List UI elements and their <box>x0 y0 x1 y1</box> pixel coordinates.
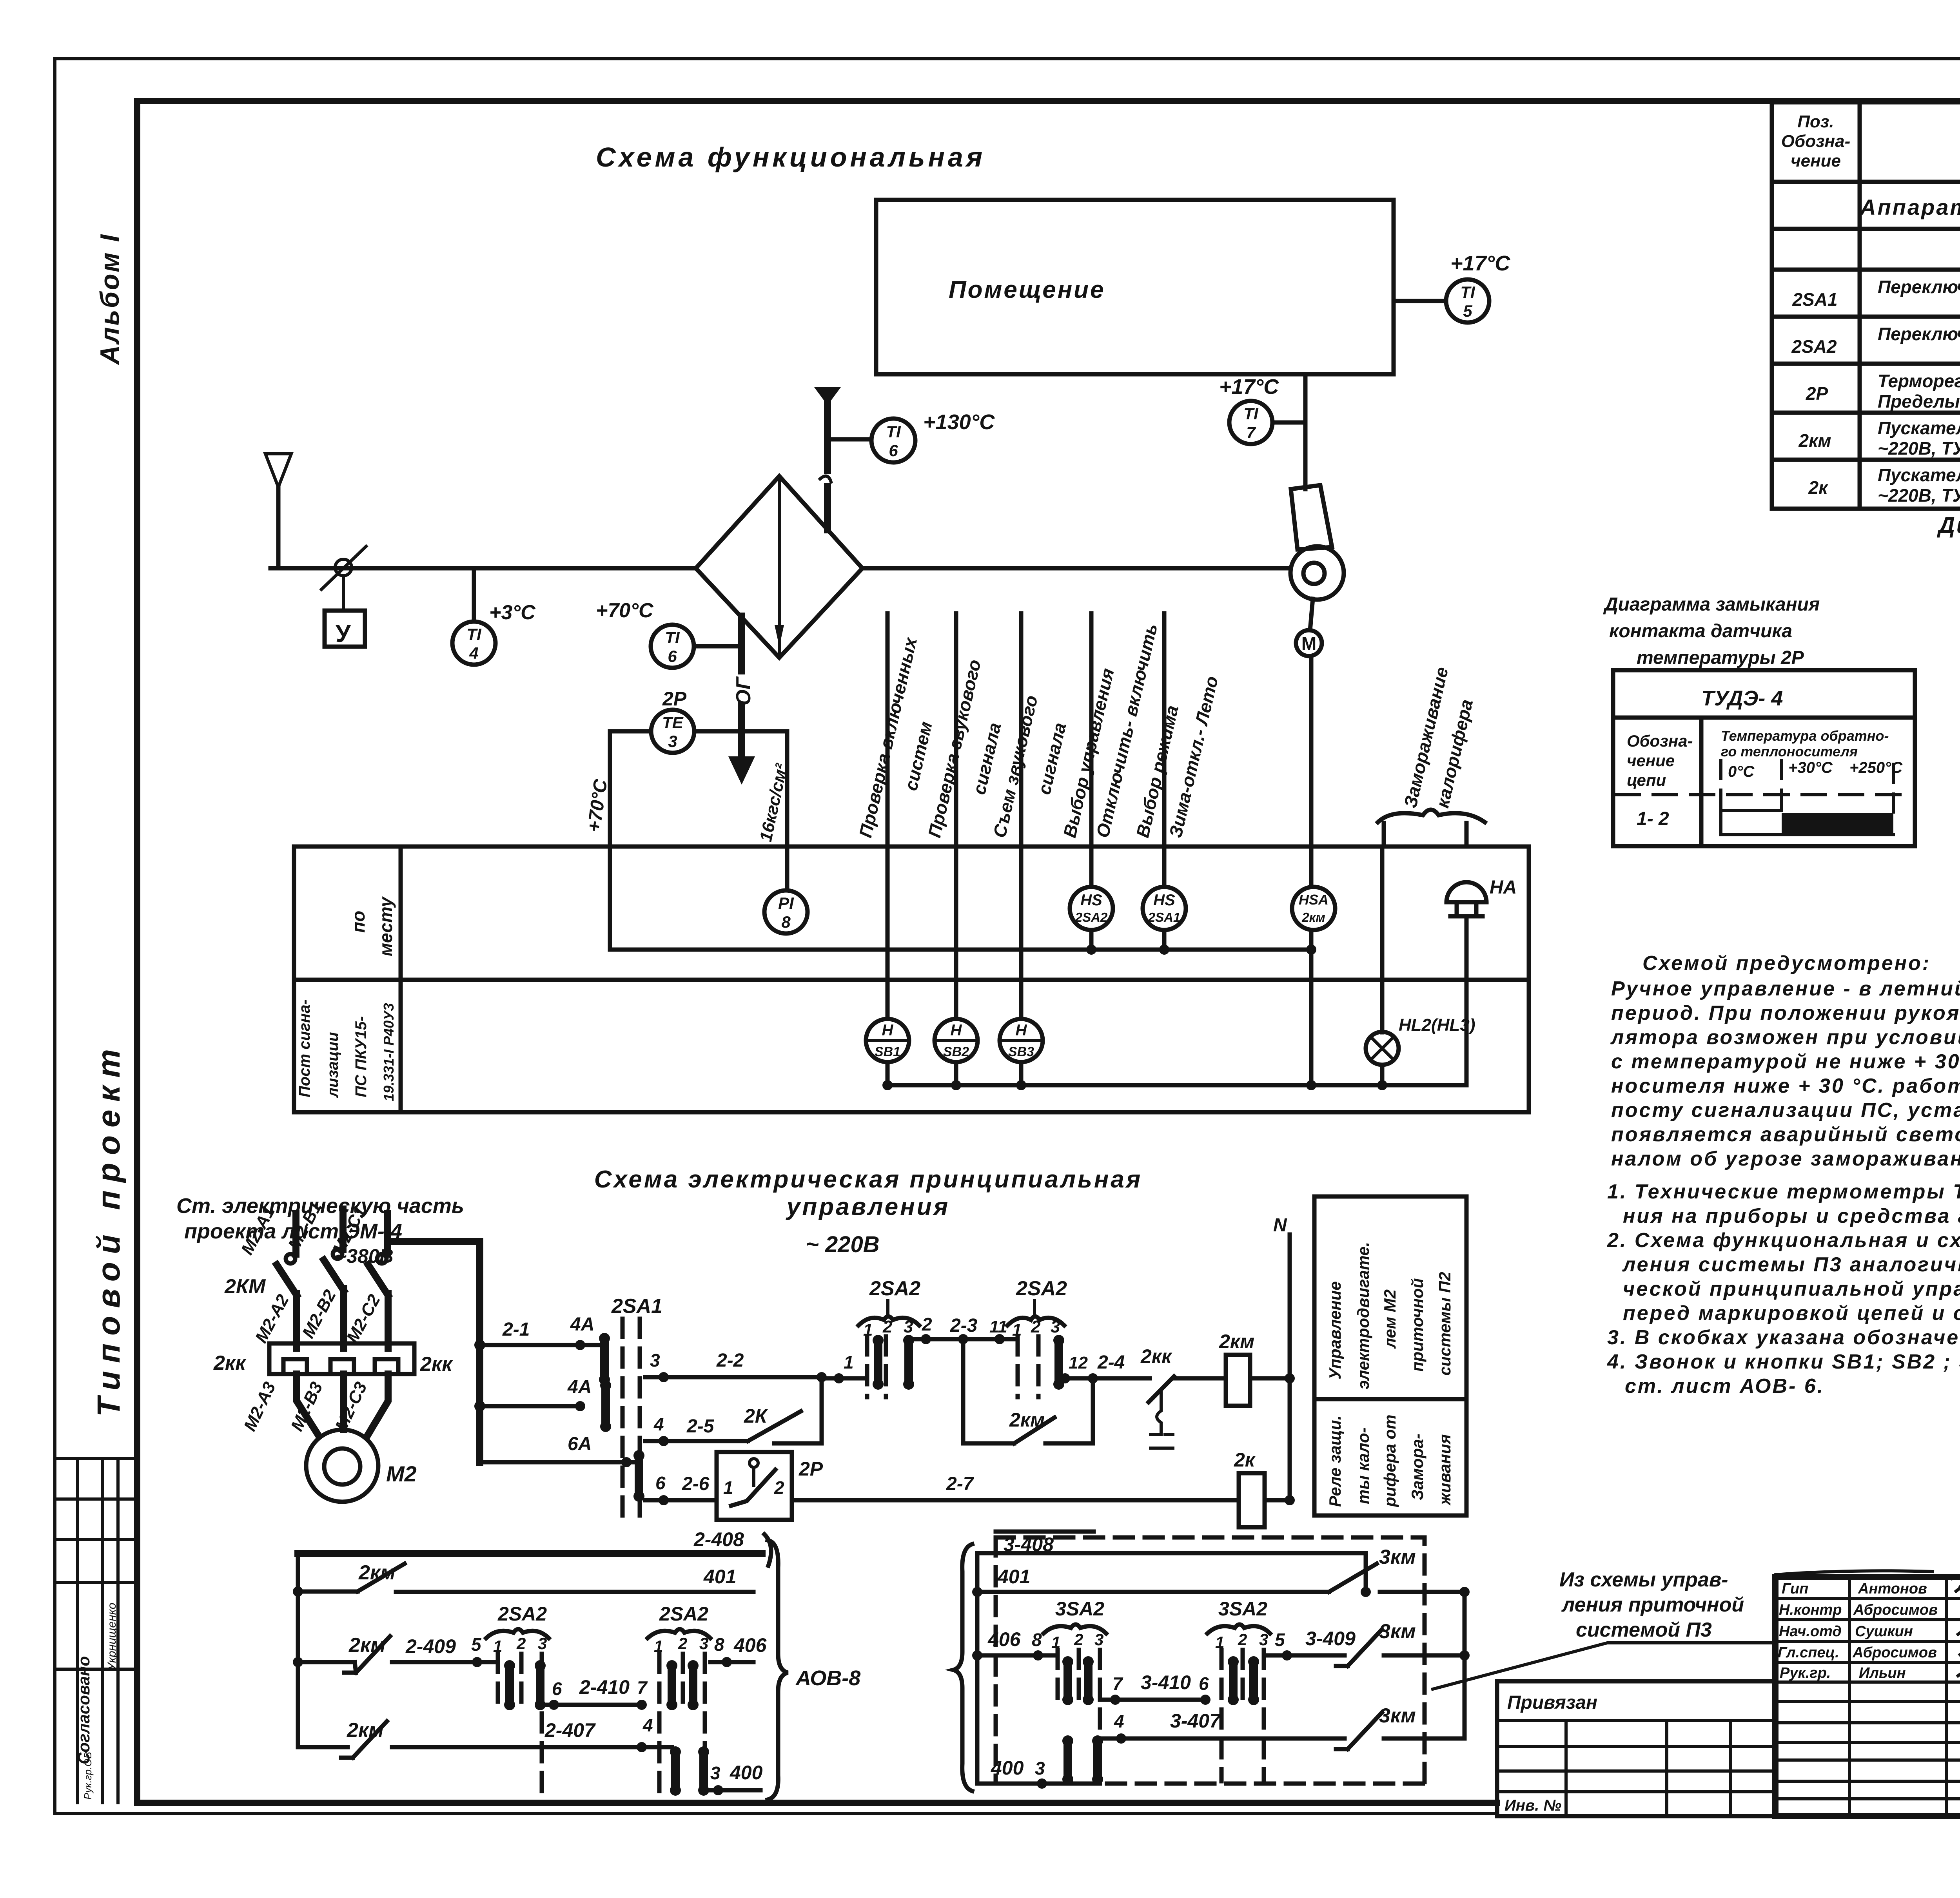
wire room to TI5 <box>1394 299 1446 303</box>
svg-text:Переключатель универсальный УП: Переключатель универсальный УП5313-А19 <box>1878 324 1960 344</box>
svg-text:чение: чение <box>1627 751 1675 770</box>
command line Проверка включенных систем <box>855 613 936 1019</box>
svg-text:3км: 3км <box>1379 1546 1416 1568</box>
wire 2-2 row <box>645 1350 827 1382</box>
svg-text:7: 7 <box>637 1677 648 1698</box>
ladder 2: brace АОВ-8 <box>768 1540 860 1800</box>
svg-text:2SА1: 2SА1 <box>611 1295 662 1318</box>
svg-text:Обозна-: Обозна- <box>1627 732 1693 750</box>
motor M2 <box>306 1430 417 1502</box>
instrument TI5 <box>1446 252 1510 323</box>
svg-text:Реле защи.: Реле защи. <box>1326 1416 1344 1507</box>
ladder 2: wire 400 <box>704 1762 763 1795</box>
horn HA <box>1446 877 1517 916</box>
panel band box <box>294 847 1529 1112</box>
svg-text:Переключатель универсальный УП: Переключатель универсальный УП5312-С86 <box>1878 277 1960 297</box>
svg-text:2: 2 <box>1074 1630 1083 1649</box>
svg-text:РI: РI <box>778 894 794 912</box>
svg-text:месту: месту <box>376 896 396 956</box>
pressure line to PI8 <box>785 731 789 890</box>
svg-text:носителя ниже + 30 °С. работа: носителя ниже + 30 °С. работающий вентил… <box>1611 1075 1960 1097</box>
left margin stamp table <box>55 1459 137 1803</box>
svg-text:М2: М2 <box>386 1461 417 1486</box>
svg-text:SВ2: SВ2 <box>943 1044 969 1059</box>
control feed tap wire <box>387 1242 485 1462</box>
command line Выбор управления <box>1059 613 1161 887</box>
svg-text:Диаграмма замыкания: Диаграмма замыкания <box>1603 594 1820 615</box>
svg-text:2: 2 <box>882 1317 893 1336</box>
parts table row 2SA2 <box>1791 323 1960 364</box>
svg-text:401: 401 <box>703 1566 736 1588</box>
svg-text:6: 6 <box>655 1473 666 1493</box>
wire 2-1 row <box>480 1314 604 1350</box>
svg-text:ТУДЭ- 4: ТУДЭ- 4 <box>1701 687 1783 710</box>
svg-text:+17°С: +17°С <box>1219 375 1279 399</box>
band row label по месту <box>348 896 396 956</box>
svg-text:SВ3: SВ3 <box>1008 1044 1034 1059</box>
svg-text:ПС ПКУ15-: ПС ПКУ15- <box>352 1016 370 1097</box>
svg-text:Схема функциональная: Схема функциональная <box>596 142 985 172</box>
svg-text:1: 1 <box>723 1477 733 1498</box>
svg-text:3: 3 <box>699 1634 708 1653</box>
svg-text:2-1: 2-1 <box>502 1319 530 1340</box>
notes text block <box>1607 952 1960 1398</box>
pipe from diamond to fan <box>862 566 1291 571</box>
signature squiggles <box>1776 1554 1960 1678</box>
command line Проверка звукового сигнала <box>924 613 1005 1019</box>
svg-text:2км: 2км <box>1009 1409 1045 1431</box>
svg-text:с температурой не ниже + 30°: с температурой не ниже + 30°С. При сниже… <box>1611 1050 1960 1073</box>
svg-text:4. Звонок и кнопки SВ1; SВ2: 4. Звонок и кнопки SВ1; SВ2 ; SВ3 являют… <box>1607 1351 1960 1373</box>
svg-text:2-5: 2-5 <box>686 1416 715 1437</box>
sensor TE3 (2Р) <box>651 688 694 753</box>
svg-text:НS: НS <box>1153 892 1175 909</box>
svg-text:цепи: цепи <box>1627 771 1666 789</box>
svg-text:лем М2: лем М2 <box>1381 1289 1399 1349</box>
svg-text:~220В, ТУ16-526.437-78: ~220В, ТУ16-526.437-78 <box>1878 438 1960 459</box>
ladder 2: left bus <box>293 1554 303 1747</box>
neutral wire N <box>1273 1215 1290 1500</box>
svg-text:6: 6 <box>1199 1673 1209 1694</box>
svg-text:Температура обратно-: Температура обратно- <box>1721 728 1889 744</box>
ladder 2: wire 406 <box>710 1634 767 1667</box>
svg-text:2кк: 2кк <box>1140 1345 1172 1367</box>
svg-text:НSА: НSА <box>1299 892 1328 908</box>
svg-text:2к: 2к <box>1234 1449 1256 1471</box>
switch HS 2SA2 <box>1070 887 1113 930</box>
svg-text:2: 2 <box>516 1634 526 1653</box>
parts table headers <box>1781 112 1960 170</box>
svg-text:3-410: 3-410 <box>1141 1671 1191 1693</box>
svg-text:2SА2: 2SА2 <box>1016 1277 1067 1300</box>
svg-text:4: 4 <box>653 1414 664 1434</box>
wire Пост row bottom <box>882 916 1466 1090</box>
svg-text:Замора-: Замора- <box>1408 1434 1426 1500</box>
phase wire B with 2КМ contact <box>285 1198 344 1348</box>
svg-text:2SА2: 2SА2 <box>869 1277 920 1300</box>
svg-text:406: 406 <box>987 1628 1021 1650</box>
ladder 3: switch 3SA2 group1 lower bars <box>1062 1735 1103 1785</box>
svg-text:контакта датчика: контакта датчика <box>1609 621 1792 642</box>
svg-text:2: 2 <box>1031 1317 1041 1336</box>
svg-text:Аппаратура по месту: Аппаратура по месту <box>1859 195 1960 219</box>
svg-text:2км: 2км <box>348 1634 386 1657</box>
svg-text:2км: 2км <box>347 1719 384 1742</box>
svg-text:Инв. №: Инв. № <box>1504 1797 1561 1814</box>
wire 2-3 row <box>909 1314 1018 1344</box>
svg-text:Из схемы управ-: Из схемы управ- <box>1559 1568 1728 1591</box>
svg-text:ОГ: ОГ <box>732 676 755 705</box>
svg-text:8: 8 <box>781 913 791 931</box>
svg-text:по: по <box>348 911 368 933</box>
svg-text:2-4: 2-4 <box>1097 1352 1125 1373</box>
svg-text:3: 3 <box>668 732 677 750</box>
instrument TI6 top <box>828 410 995 462</box>
svg-text:2Р: 2Р <box>1806 383 1828 404</box>
command line Выбор режима <box>1132 613 1222 887</box>
svg-text:перед маркировкой цепей и: перед маркировкой цепей и обозначений ап… <box>1623 1302 1960 1325</box>
svg-text:2-407: 2-407 <box>544 1719 596 1741</box>
svg-text:3SА2: 3SА2 <box>1218 1598 1267 1620</box>
svg-text:6А: 6А <box>568 1434 592 1454</box>
leader Из схемы управления <box>1433 1568 1772 1689</box>
svg-text:3км: 3км <box>1379 1704 1416 1727</box>
svg-text:2SА2: 2SА2 <box>1075 910 1108 925</box>
svg-text:2кк: 2кк <box>213 1352 247 1374</box>
svg-text:6: 6 <box>889 441 898 460</box>
ladder 3: left bus <box>972 1553 982 1784</box>
svg-text:+3°С: +3°С <box>489 601 536 624</box>
svg-text:3-409: 3-409 <box>1305 1628 1356 1650</box>
ladder 3: wire 401 with contact 3КМ <box>977 1546 1470 1597</box>
wire 4A row2 <box>480 1377 592 1411</box>
main row wire into 2SA2 <box>822 1352 867 1383</box>
phase wire A with 2КМ contact <box>238 1203 297 1348</box>
svg-text:Схема электрическая принципи: Схема электрическая принципиальная <box>594 1166 1143 1193</box>
svg-text:8: 8 <box>1032 1630 1042 1650</box>
svg-text:2: 2 <box>774 1477 784 1498</box>
svg-text:12: 12 <box>1069 1353 1088 1372</box>
svg-text:Управление: Управление <box>1326 1281 1344 1380</box>
wire по месту row <box>610 930 1316 955</box>
svg-text:Н.контр: Н.контр <box>1779 1602 1842 1618</box>
wire 2-5 row with contact 2К <box>645 1377 822 1446</box>
svg-text:+130°С: +130°С <box>923 410 995 434</box>
phase wire C with 2КМ contact <box>329 1203 388 1348</box>
svg-text:5: 5 <box>1275 1630 1285 1650</box>
svg-text:Ильин: Ильин <box>1859 1665 1906 1681</box>
lamp HL2(HL3) <box>1366 847 1475 1065</box>
svg-text:4А: 4А <box>570 1314 594 1335</box>
svg-text:2км: 2км <box>1798 430 1831 451</box>
svg-text:7: 7 <box>1112 1673 1123 1694</box>
svg-text:8: 8 <box>714 1634 724 1655</box>
svg-text:+30°С: +30°С <box>1788 759 1833 776</box>
push button H SB3 <box>1000 1019 1043 1062</box>
svg-text:2SА1: 2SА1 <box>1792 289 1837 310</box>
svg-text:НА: НА <box>1490 877 1517 898</box>
svg-text:АОВ-8: АОВ-8 <box>795 1666 860 1690</box>
svg-text:4: 4 <box>1114 1711 1124 1731</box>
svg-text:3SА2: 3SА2 <box>1055 1598 1104 1620</box>
svg-text:Диаграмма замыкания контакто: Диаграмма замыкания контактов <box>1936 513 1960 538</box>
svg-text:Пределы регулирования от 0 до: Пределы регулирования от 0 до +250°С <box>1878 391 1960 412</box>
wire 2-6 row <box>645 1473 717 1505</box>
svg-text:2км: 2км <box>1301 910 1325 925</box>
note Ст. электрическую часть <box>176 1194 464 1267</box>
svg-text:3: 3 <box>538 1634 547 1653</box>
svg-text:ления приточной: ления приточной <box>1561 1593 1744 1616</box>
svg-text:Пускатель магнитный ПМЛ-111002: Пускатель магнитный ПМЛ-111002А <box>1878 465 1960 485</box>
svg-text:2SА2: 2SА2 <box>1791 336 1837 357</box>
thermal overload 2КК <box>213 1343 453 1376</box>
svg-text:системой П3: системой П3 <box>1576 1619 1712 1641</box>
parts table row 2SA1 <box>1792 276 1960 317</box>
svg-text:1: 1 <box>844 1352 854 1372</box>
ladder 3: wire 3-410 <box>1100 1671 1210 1705</box>
svg-text:Помещение: Помещение <box>949 276 1105 303</box>
svg-text:3: 3 <box>1259 1630 1268 1649</box>
svg-text:Схемой предусмотрено:: Схемой предусмотрено: <box>1642 952 1931 975</box>
svg-text:5: 5 <box>471 1634 482 1655</box>
svg-text:3: 3 <box>1035 1758 1045 1778</box>
svg-text:ления системы П3 аналогичны: ления системы П3 аналогичны схеме функци… <box>1622 1253 1960 1276</box>
svg-text:3: 3 <box>1051 1317 1060 1336</box>
svg-text:ст. лист АОВ- 6.: ст. лист АОВ- 6. <box>1625 1375 1824 1398</box>
svg-text:ТI: ТI <box>665 628 680 647</box>
supply line Г with filled triangle <box>814 387 841 530</box>
title block frame <box>1775 1577 1960 1816</box>
svg-text:2: 2 <box>922 1314 932 1334</box>
ladder 3: wire 3-408 <box>977 1532 1366 1592</box>
svg-text:4: 4 <box>469 644 478 662</box>
switch 2SA2 group1 <box>858 1277 920 1397</box>
svg-text:ния на приборы и средства: ния на приборы и средства автоматизации. <box>1623 1205 1960 1227</box>
svg-text:2км: 2км <box>358 1561 396 1584</box>
svg-text:Пускатель магнитный: Пускатель магнитный <box>1878 418 1960 438</box>
heater diamond <box>696 476 862 658</box>
svg-text:400: 400 <box>730 1762 763 1784</box>
svg-text:4: 4 <box>642 1715 653 1735</box>
svg-text:7: 7 <box>1246 423 1256 442</box>
svg-text:лизации: лизации <box>324 1032 341 1098</box>
svg-text:рифера от: рифера от <box>1381 1414 1399 1507</box>
ladder 2: wire 2-407 with contact 2КМ NC <box>298 1715 672 1758</box>
parts table row 2км <box>1798 418 1960 461</box>
antenna symbol left <box>265 454 291 568</box>
wire M down to HSA <box>1309 656 1314 887</box>
svg-text:N: N <box>1273 1215 1287 1236</box>
svg-text:го теплоносителя: го теплоносителя <box>1721 743 1858 760</box>
switch 2SA1 bar row2 <box>600 1380 611 1432</box>
svg-text:Согласовано: Согласовано <box>74 1656 93 1764</box>
svg-text:Нач.отд: Нач.отд <box>1779 1623 1842 1640</box>
svg-text:Привязан: Привязан <box>1507 1692 1597 1713</box>
switch 2SA2 group2 <box>1007 1277 1067 1397</box>
svg-text:2КМ: 2КМ <box>224 1275 266 1298</box>
svg-text:лятора возможен при условии: лятора возможен при условии протока чере… <box>1610 1026 1960 1049</box>
svg-text:2-2: 2-2 <box>716 1350 744 1371</box>
svg-text:2SА2: 2SА2 <box>659 1603 708 1625</box>
switch 2SA1 bar row3 <box>633 1450 644 1502</box>
svg-text:~220В, ТУ16-526.437-78: ~220В, ТУ16-526.437-78 <box>1878 485 1960 506</box>
svg-text:2-3: 2-3 <box>950 1315 978 1336</box>
switch HS 2SA1 <box>1143 887 1186 930</box>
wire 2-4 row <box>1059 1352 1150 1383</box>
svg-text:ТI: ТI <box>886 422 901 441</box>
svg-text:2SА1: 2SА1 <box>1148 910 1181 925</box>
svg-text:приточной: приточной <box>1408 1278 1426 1372</box>
svg-text:3: 3 <box>710 1763 720 1783</box>
band row label Пост сигнализации <box>296 999 397 1101</box>
svg-text:Н: Н <box>882 1022 894 1039</box>
command line Съем звукового сигнала <box>989 613 1070 1019</box>
svg-text:4А: 4А <box>567 1377 592 1398</box>
wire 6A row <box>480 1434 639 1467</box>
svg-text:электродвигате.: электродвигате. <box>1354 1242 1372 1389</box>
svg-text:2-409: 2-409 <box>405 1635 456 1657</box>
svg-text:Ручное управление - в летний: Ручное управление - в летний период, пол… <box>1611 977 1960 1000</box>
wire 2-7 <box>792 1474 1239 1500</box>
svg-text:температуры 2Р: температуры 2Р <box>1637 647 1804 668</box>
svg-text:11: 11 <box>989 1317 1007 1336</box>
svg-text:2Р: 2Р <box>799 1458 823 1480</box>
svg-text:М: М <box>1301 633 1316 654</box>
svg-text:Н: Н <box>1016 1022 1027 1039</box>
svg-text:Гл.спец.: Гл.спец. <box>1778 1644 1839 1661</box>
svg-text:2: 2 <box>678 1634 687 1653</box>
svg-text:6: 6 <box>668 647 677 665</box>
svg-text:+17°С: +17°С <box>1450 252 1510 275</box>
ladder 2: wire 401 with contact 2КМ <box>298 1561 753 1592</box>
contactor coil 2КМ <box>1219 1331 1295 1406</box>
relay coil 2К <box>1234 1449 1295 1527</box>
svg-text:ТI: ТI <box>1460 283 1475 301</box>
ladder 3: wire 400 <box>977 1757 1100 1789</box>
instrument TI4 <box>452 568 536 665</box>
push button H SB2 <box>935 1019 978 1062</box>
svg-text:SВ1: SВ1 <box>875 1044 900 1059</box>
push button H SB1 <box>866 1019 909 1062</box>
ladder 2: wire 2-408 <box>298 1528 771 1566</box>
svg-text:2к: 2к <box>1808 477 1829 498</box>
instrument PI8 <box>764 890 808 934</box>
svg-text:2К: 2К <box>744 1405 768 1427</box>
parts list table grid <box>1772 102 1960 509</box>
ladder 2: switch 2SA2 group1 <box>486 1603 549 1797</box>
svg-text:400: 400 <box>991 1757 1024 1779</box>
svg-text:системы П2: системы П2 <box>1436 1272 1454 1376</box>
svg-text:Н: Н <box>951 1022 962 1039</box>
switch 2SA1 dashed columns <box>611 1295 662 1517</box>
svg-text:2. Схема функциональная и с: 2. Схема функциональная и схема электрич… <box>1607 1229 1960 1252</box>
ladder 3: switch 3SA2 group1 <box>1044 1598 1106 1781</box>
svg-text:406: 406 <box>733 1634 767 1656</box>
svg-text:ты кало-: ты кало- <box>1354 1427 1372 1504</box>
svg-text:чение: чение <box>1791 151 1841 170</box>
ladder 2: switch 2SA2 group2 upper bars <box>648 1603 710 1797</box>
duct wire room to fan <box>1303 374 1308 489</box>
svg-text:2-6: 2-6 <box>682 1474 710 1494</box>
svg-text:налом об угрозе замораживани: налом об угрозе замораживания калорифера… <box>1611 1148 1960 1170</box>
thermal contact 2КК NC <box>1140 1345 1226 1448</box>
svg-text:3. В скобках указана обозна: 3. В скобках указана обозначение для сис… <box>1607 1326 1960 1349</box>
svg-text:Альбом I: Альбом I <box>95 233 125 365</box>
electric schematic title <box>594 1166 1143 1220</box>
svg-text:Обозна-: Обозна- <box>1781 132 1851 151</box>
svg-text:1. Технические термометры ТI: 1. Технические термометры ТI заказываютс… <box>1607 1180 1960 1203</box>
svg-text:2-410: 2-410 <box>579 1676 630 1698</box>
hot water line ОГ with arrow <box>728 616 755 785</box>
instrument TI6 lower <box>596 599 742 668</box>
parts table row 2Р <box>1806 371 1960 412</box>
svg-text:Сушкин: Сушкин <box>1855 1623 1913 1640</box>
svg-text:2Р: 2Р <box>662 688 687 710</box>
signature rows text <box>1778 1581 1938 1681</box>
ladder 3: switch 3SA2 group2 <box>1207 1598 1270 1781</box>
svg-text:2-7: 2-7 <box>946 1474 975 1494</box>
ladder 2: wire 2-410 <box>542 1676 648 1710</box>
ladder 3: wire 406 row start <box>977 1628 1058 1661</box>
svg-text:управления: управления <box>786 1193 950 1220</box>
svg-text:3: 3 <box>650 1350 660 1370</box>
svg-text:появляется аварийный светово: появляется аварийный световой сигнал, со… <box>1611 1123 1960 1146</box>
svg-text:2SА2: 2SА2 <box>497 1603 547 1625</box>
svg-text:2кк: 2кк <box>420 1353 453 1376</box>
svg-text:Гип: Гип <box>1782 1581 1808 1597</box>
ladder 2: wire 2-409 with contact 2КМ NC <box>298 1634 498 1673</box>
svg-text:период. При положении рукоят: период. При положении рукоятки переключа… <box>1611 1002 1960 1024</box>
svg-text:ТI: ТI <box>1243 404 1259 423</box>
TUDE-4 diagram table <box>1613 670 1915 846</box>
svg-text:У: У <box>336 620 351 647</box>
svg-text:Рук.гр.ОВ: Рук.гр.ОВ <box>82 1752 94 1800</box>
svg-text:НS: НS <box>1080 892 1102 909</box>
caption Диаграмма замыкания контакта датчика 2Р <box>1603 594 1820 668</box>
room box Помещение <box>876 200 1394 374</box>
svg-text:2км: 2км <box>1219 1331 1254 1352</box>
wire TE3 to pressure line <box>694 729 787 734</box>
svg-text:НL2(НL3): НL2(НL3) <box>1399 1015 1475 1035</box>
ladder 3: wire 3-409 with contact 3КМ NC <box>1264 1592 1470 1738</box>
valve with actuator У <box>321 546 366 647</box>
svg-text:Поз.: Поз. <box>1797 112 1834 131</box>
svg-text:1- 2: 1- 2 <box>1637 809 1669 829</box>
svg-text:401: 401 <box>997 1566 1030 1588</box>
svg-text:6: 6 <box>552 1679 562 1699</box>
svg-text:посту сигнализации ПС, устан: посту сигнализации ПС, установленном в р… <box>1611 1099 1960 1122</box>
svg-text:3-407: 3-407 <box>1170 1710 1221 1732</box>
Привязан box <box>1497 1681 1775 1816</box>
svg-text:3км: 3км <box>1379 1620 1416 1643</box>
svg-text:2: 2 <box>1238 1630 1247 1649</box>
caption Диаграмма замыкания контактов переключателей <box>1936 513 1960 565</box>
svg-text:Пост сигна-: Пост сигна- <box>296 999 313 1097</box>
svg-text:3: 3 <box>904 1317 913 1336</box>
svg-text:5: 5 <box>1463 302 1472 320</box>
svg-text:ТЕ: ТЕ <box>662 713 684 732</box>
switch HSA 2км <box>1292 887 1335 930</box>
bracket Замораживание калорифера <box>1378 665 1485 847</box>
parts table row 2к <box>1808 465 1960 506</box>
motor M circle <box>1296 599 1322 656</box>
svg-text:Антонов: Антонов <box>1858 1581 1927 1597</box>
wires 2КК to motor M2 <box>240 1374 388 1435</box>
svg-text:Абросимов: Абросимов <box>1852 1644 1937 1661</box>
ladder 2: switch 2SA2 group2 lower bars <box>670 1746 709 1796</box>
svg-text:2-408: 2-408 <box>693 1528 744 1550</box>
main air pipe <box>270 566 696 571</box>
